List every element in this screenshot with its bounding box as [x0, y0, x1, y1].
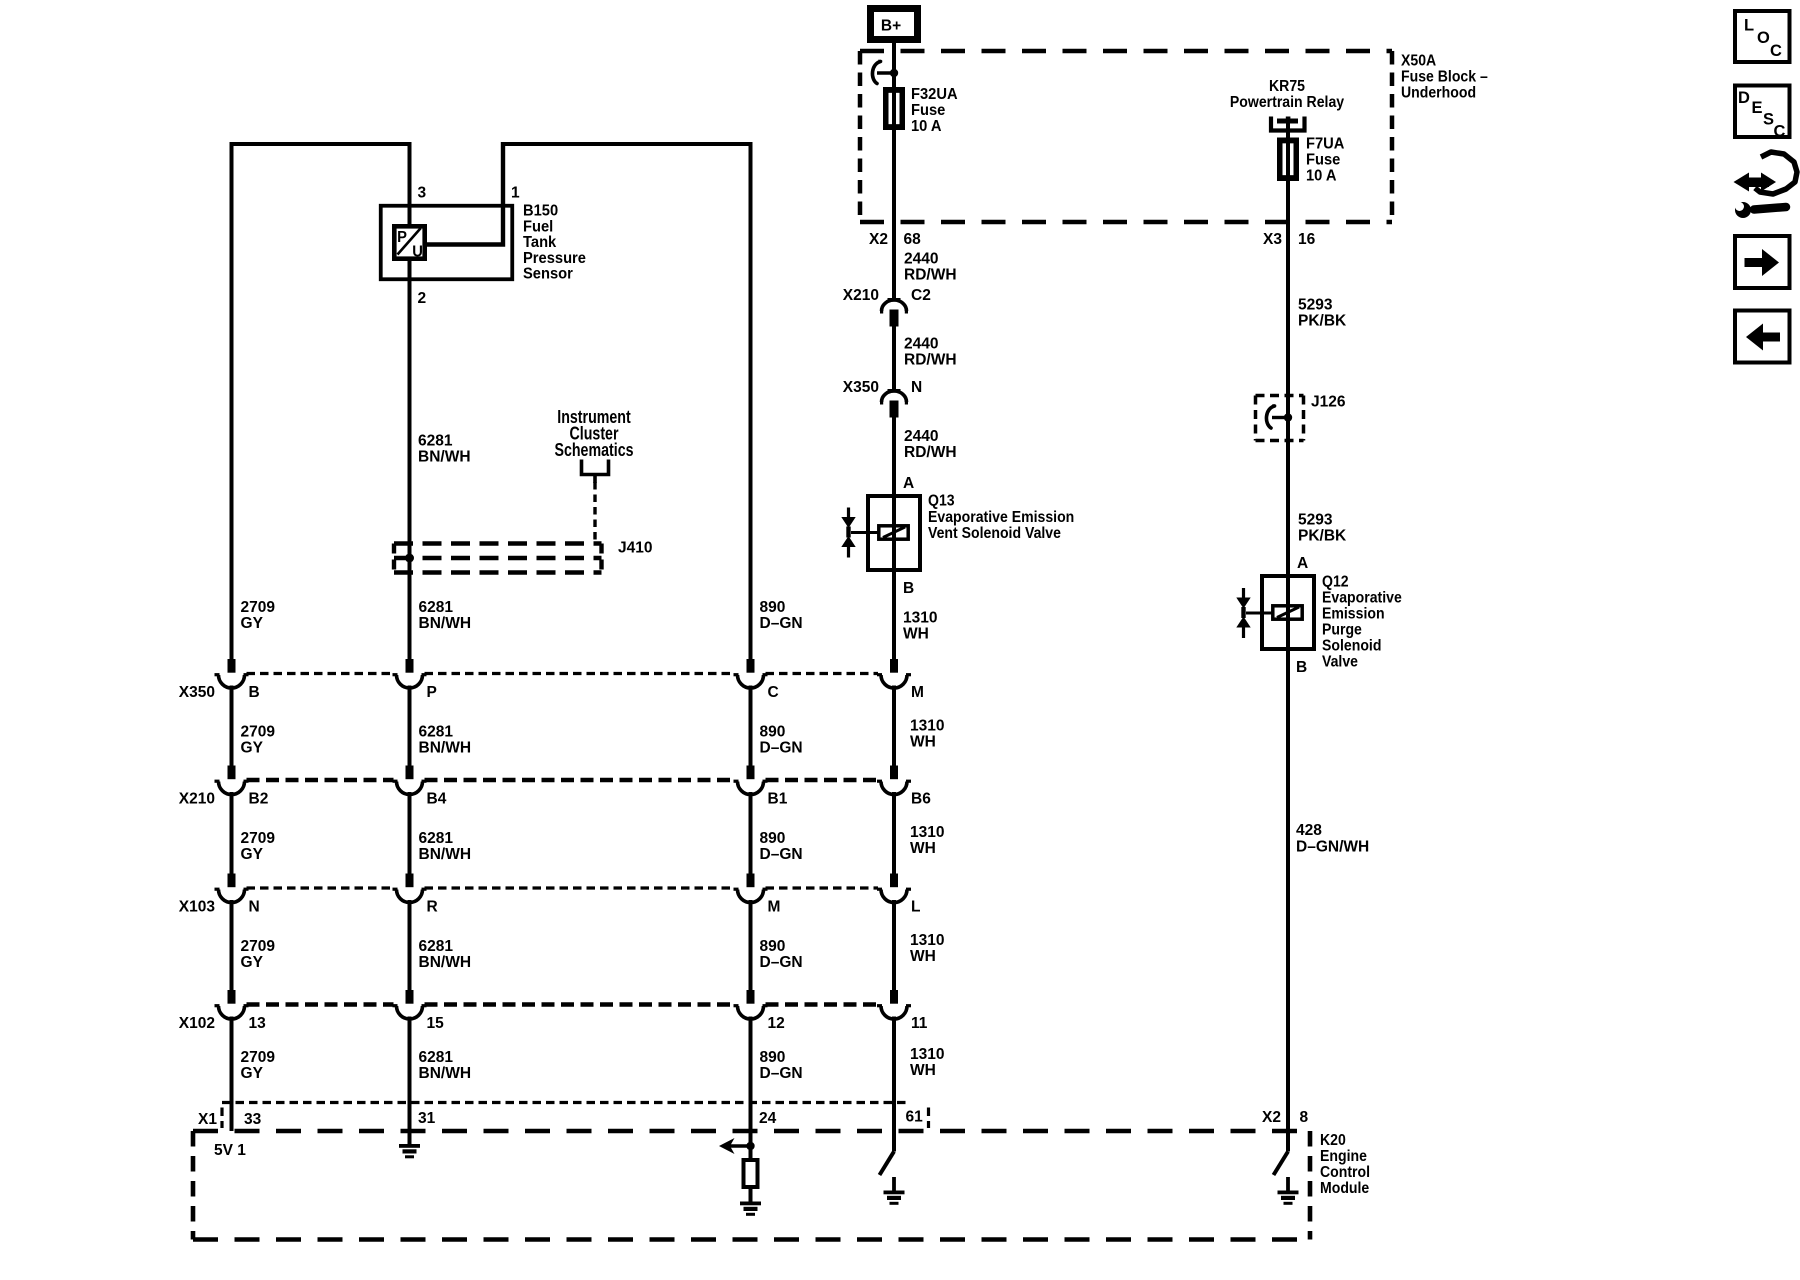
- svg-text:D–GN: D–GN: [760, 739, 803, 756]
- svg-text:Vent Solenoid Valve: Vent Solenoid Valve: [928, 524, 1061, 542]
- switch to ground at X2-8: [1274, 1152, 1289, 1176]
- svg-text:2709: 2709: [241, 599, 276, 616]
- svg-text:PK/BK: PK/BK: [1298, 312, 1347, 329]
- connector X210 pin C2 inline: [888, 298, 901, 302]
- sensor B150 Fuel Tank Pressure Sensor box: [381, 206, 513, 280]
- svg-text:Powertrain Relay: Powertrain Relay: [1230, 93, 1345, 111]
- svg-text:X1: X1: [198, 1111, 217, 1128]
- connector terminal X350 column 3: [747, 659, 755, 673]
- svg-text:11: 11: [911, 1015, 928, 1032]
- switch to ground at pin 61: [880, 1152, 895, 1176]
- svg-text:WH: WH: [910, 840, 936, 857]
- connector terminal X103 column 4: [890, 874, 898, 888]
- splice junction J126: [1284, 413, 1292, 421]
- svg-text:890: 890: [760, 830, 786, 847]
- icon LOC navigation box: [1735, 11, 1790, 62]
- svg-text:BN/WH: BN/WH: [419, 739, 472, 756]
- svg-text:O: O: [1757, 28, 1770, 47]
- solenoid Q12 box outline: [1262, 576, 1314, 649]
- module K20 Engine Control Module dashed enclosure: [193, 1129, 1310, 1134]
- svg-text:5V 1: 5V 1: [214, 1142, 246, 1159]
- svg-text:BN/WH: BN/WH: [419, 615, 472, 632]
- svg-text:U: U: [412, 243, 423, 261]
- connector terminal X350 column 4: [890, 659, 898, 673]
- svg-text:N: N: [911, 379, 922, 396]
- svg-text:X350: X350: [179, 684, 215, 701]
- svg-text:P: P: [397, 228, 407, 246]
- icon forward arrow box: [1735, 236, 1790, 288]
- svg-text:BN/WH: BN/WH: [419, 846, 472, 863]
- wire top bus from sensor pin 1 to 890 D-GN column: [503, 142, 751, 146]
- svg-text:B+: B+: [881, 17, 901, 34]
- svg-text:J126: J126: [1311, 393, 1346, 410]
- svg-text:Underhood: Underhood: [1401, 84, 1476, 102]
- svg-text:RD/WH: RD/WH: [904, 266, 957, 283]
- connector terminal X350 column 1: [228, 659, 236, 673]
- svg-text:L: L: [1744, 15, 1754, 34]
- svg-text:M: M: [911, 684, 924, 701]
- signal arrow and sense resistor at pin 24: [746, 1142, 754, 1150]
- svg-text:WH: WH: [903, 625, 929, 642]
- svg-text:BN/WH: BN/WH: [419, 1065, 472, 1082]
- svg-text:6281: 6281: [419, 830, 454, 847]
- svg-text:1310: 1310: [903, 609, 938, 626]
- ground symbol under pin 31: [399, 1144, 420, 1148]
- wire battery feed B+ to Q13 and rows: [892, 40, 896, 298]
- svg-text:M: M: [768, 898, 781, 915]
- svg-text:6281: 6281: [418, 432, 453, 449]
- svg-text:B1: B1: [768, 790, 788, 807]
- svg-text:33: 33: [244, 1111, 261, 1128]
- svg-text:6281: 6281: [419, 938, 454, 955]
- svg-text:D–GN: D–GN: [760, 846, 803, 863]
- svg-text:RD/WH: RD/WH: [904, 351, 957, 368]
- suppression diode Q13: [847, 508, 850, 518]
- instrument cluster reference bracket: [582, 460, 609, 475]
- icon back arrow box: [1735, 311, 1790, 363]
- fuse F7UA 10A: [1279, 139, 1298, 179]
- svg-text:B: B: [1296, 659, 1307, 676]
- svg-text:B2: B2: [249, 790, 269, 807]
- svg-text:890: 890: [760, 1049, 786, 1066]
- wire col5 powertrain relay output 5293 PK/BK / 428 D-GN/WH vertical: [1286, 117, 1290, 1152]
- solenoid Q13 box outline: [868, 496, 920, 570]
- connector terminal X103 column 2: [406, 874, 414, 888]
- svg-text:Module: Module: [1320, 1179, 1369, 1197]
- svg-text:C: C: [1770, 41, 1782, 60]
- svg-text:890: 890: [760, 599, 786, 616]
- wire col2 6281 BN/WH vertical through sensor and J410: [408, 142, 412, 660]
- wire sensor pin1 loop: [427, 142, 503, 245]
- svg-text:15: 15: [427, 1015, 444, 1032]
- svg-text:E: E: [1752, 98, 1763, 117]
- splice J126 dashed box: [1256, 394, 1304, 398]
- svg-text:31: 31: [418, 1110, 435, 1127]
- svg-text:GY: GY: [241, 954, 264, 971]
- connector terminal X210 column 2: [406, 766, 414, 780]
- svg-text:2440: 2440: [904, 250, 939, 267]
- connector row X102 dashed bus line: [247, 1002, 394, 1007]
- connector terminal X210 column 1: [228, 766, 236, 780]
- svg-text:B6: B6: [911, 790, 931, 807]
- splice J410 dashed box with bus line: [394, 541, 602, 545]
- wire col3 890 D-GN vertical: [749, 142, 753, 660]
- svg-text:RD/WH: RD/WH: [904, 444, 957, 461]
- svg-text:L: L: [911, 898, 921, 915]
- svg-text:WH: WH: [910, 733, 936, 750]
- svg-text:C: C: [768, 684, 779, 701]
- svg-text:GY: GY: [241, 615, 264, 632]
- svg-text:1310: 1310: [910, 1046, 945, 1063]
- connector terminal X102 column 2: [406, 990, 414, 1004]
- sensor P/U transducer symbol: [394, 226, 424, 258]
- wire top bus from X1-33 column to sensor pin 3: [232, 142, 412, 146]
- connector terminal X102 column 1: [228, 990, 236, 1004]
- svg-text:GY: GY: [241, 739, 264, 756]
- wire segments column 2 across connector rows: [408, 686, 412, 767]
- connector X350 pin N inline: [888, 389, 901, 393]
- connector terminal X102 column 4: [890, 990, 898, 1004]
- svg-text:R: R: [427, 898, 439, 915]
- svg-text:61: 61: [906, 1108, 923, 1125]
- wire col1 2709 GY vertical: [230, 142, 234, 660]
- svg-text:5293: 5293: [1298, 511, 1333, 528]
- svg-text:D–GN: D–GN: [760, 615, 803, 632]
- instrument cluster reference dashed lead: [593, 482, 596, 540]
- svg-text:1310: 1310: [910, 932, 945, 949]
- connector terminal X210 column 4: [890, 766, 898, 780]
- svg-text:GY: GY: [241, 1065, 264, 1082]
- svg-text:10 A: 10 A: [1306, 167, 1337, 185]
- svg-text:2709: 2709: [241, 830, 276, 847]
- svg-text:890: 890: [760, 723, 786, 740]
- wire col2 into ECM to ground: [408, 1103, 412, 1146]
- relay KR75 contact symbol: [1271, 117, 1305, 131]
- svg-text:N: N: [249, 898, 260, 915]
- wire col4 into ECM to switch: [892, 1103, 896, 1152]
- fuse block X50A dashed enclosure: [860, 49, 1392, 54]
- connector terminal X350 column 2: [406, 659, 414, 673]
- svg-text:A: A: [1297, 555, 1308, 572]
- suppression diode Q12: [1242, 588, 1245, 598]
- svg-text:1: 1: [511, 184, 520, 201]
- svg-text:Valve: Valve: [1322, 653, 1358, 671]
- svg-text:24: 24: [759, 1110, 776, 1127]
- svg-text:2709: 2709: [241, 1049, 276, 1066]
- connector row X350 dashed bus line: [247, 672, 394, 675]
- svg-text:8: 8: [1300, 1109, 1309, 1126]
- svg-text:2440: 2440: [904, 335, 939, 352]
- svg-text:6281: 6281: [419, 1049, 454, 1066]
- svg-text:1310: 1310: [910, 717, 945, 734]
- svg-text:X3: X3: [1263, 231, 1282, 248]
- icon wiring pigtail with double arrow and wrench: [1745, 178, 1769, 188]
- splice junction dot at J410: [405, 554, 414, 563]
- svg-text:J410: J410: [618, 539, 653, 556]
- svg-text:C: C: [1774, 121, 1786, 140]
- svg-text:PK/BK: PK/BK: [1298, 527, 1347, 544]
- svg-text:890: 890: [760, 938, 786, 955]
- connector terminal X103 column 3: [747, 874, 755, 888]
- svg-text:B4: B4: [427, 790, 447, 807]
- svg-text:D: D: [1738, 88, 1750, 107]
- svg-text:428: 428: [1296, 822, 1322, 839]
- svg-text:1310: 1310: [910, 824, 945, 841]
- svg-text:2: 2: [418, 290, 427, 307]
- svg-text:2440: 2440: [904, 428, 939, 445]
- solenoid coil symbol Q12: [1273, 606, 1302, 619]
- svg-text:Schematics: Schematics: [554, 440, 633, 460]
- splice junction inside fuse block: [890, 69, 898, 77]
- solenoid coil symbol Q13: [879, 526, 908, 539]
- svg-text:A: A: [903, 475, 914, 492]
- svg-text:6281: 6281: [419, 723, 454, 740]
- wire segments column 1 across connector rows: [230, 686, 234, 767]
- connector terminal X210 column 3: [747, 766, 755, 780]
- connector terminal X102 column 3: [747, 990, 755, 1004]
- svg-text:WH: WH: [910, 948, 936, 965]
- connector terminal X103 column 1: [228, 874, 236, 888]
- svg-text:P: P: [427, 684, 437, 701]
- svg-text:6281: 6281: [419, 599, 454, 616]
- icon DESC navigation box: [1735, 86, 1790, 138]
- svg-text:X210: X210: [179, 790, 215, 807]
- svg-text:13: 13: [249, 1015, 266, 1032]
- connector row X103 dashed bus line: [247, 886, 394, 889]
- svg-text:X210: X210: [843, 287, 879, 304]
- power source B+ box: [871, 9, 918, 40]
- svg-text:5293: 5293: [1298, 296, 1333, 313]
- connector row X210 dashed bus line: [247, 778, 394, 783]
- svg-text:12: 12: [768, 1015, 785, 1032]
- svg-text:16: 16: [1298, 231, 1315, 248]
- svg-text:3: 3: [418, 184, 427, 201]
- svg-text:68: 68: [904, 231, 921, 248]
- wire col1 into ECM to 5V label: [230, 1103, 234, 1132]
- svg-text:X2: X2: [1262, 1109, 1281, 1126]
- svg-text:Sensor: Sensor: [523, 265, 573, 283]
- svg-text:BN/WH: BN/WH: [418, 448, 471, 465]
- wire segments column 4 across connector rows: [892, 686, 896, 767]
- svg-text:BN/WH: BN/WH: [419, 954, 472, 971]
- svg-text:D–GN: D–GN: [760, 1065, 803, 1082]
- wire segments column 3 across connector rows: [749, 686, 753, 767]
- svg-text:X2: X2: [869, 231, 888, 248]
- svg-text:WH: WH: [910, 1062, 936, 1079]
- svg-text:X350: X350: [843, 379, 879, 396]
- svg-text:X103: X103: [179, 898, 215, 915]
- svg-text:B: B: [249, 684, 260, 701]
- fuse F32UA 10A: [885, 89, 904, 129]
- svg-text:2709: 2709: [241, 938, 276, 955]
- svg-text:D–GN: D–GN: [760, 954, 803, 971]
- svg-text:S: S: [1763, 109, 1774, 128]
- wire col3 into ECM to resistor: [749, 1103, 753, 1161]
- svg-text:2709: 2709: [241, 723, 276, 740]
- svg-text:B: B: [903, 580, 914, 597]
- svg-text:C2: C2: [911, 287, 931, 304]
- svg-text:GY: GY: [241, 846, 264, 863]
- svg-text:D–GN/WH: D–GN/WH: [1296, 838, 1369, 855]
- svg-text:10 A: 10 A: [911, 117, 942, 135]
- svg-text:X102: X102: [179, 1015, 215, 1032]
- connector row X1 dashed line with end ticks: [222, 1101, 906, 1104]
